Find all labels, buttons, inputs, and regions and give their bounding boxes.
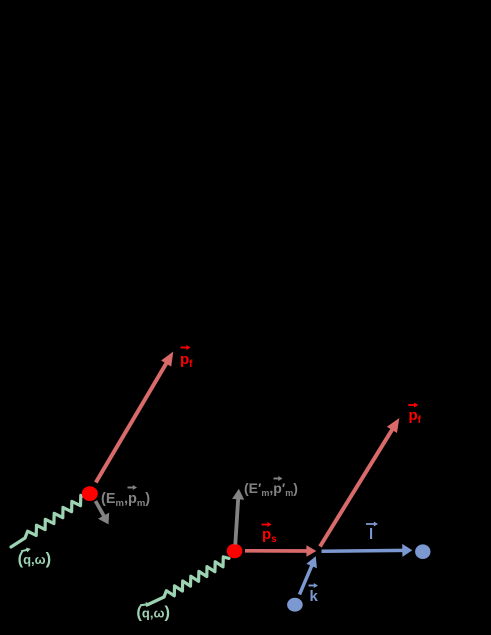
- label (E_m,p_m) left: [101, 485, 150, 509]
- arrow p_s horizontal (indianred): [245, 545, 316, 557]
- svg-text:k: k: [310, 588, 319, 605]
- blue dot right of l arrow: [415, 544, 430, 559]
- label l (blue): [366, 522, 378, 544]
- label p_f right: [408, 403, 421, 427]
- svg-text:(q,ω): (q,ω): [136, 604, 170, 622]
- svg-text:l: l: [369, 526, 373, 543]
- label k (blue): [309, 583, 319, 605]
- label (q,w) right: [136, 601, 170, 621]
- arrow p_f right (indianred): [320, 418, 399, 547]
- gray arrow up (E'_m,p'_m) right: [232, 489, 244, 545]
- label (E'_m,p'_m) right: [244, 476, 298, 498]
- label p_f left: [180, 345, 193, 370]
- label p_s: [262, 522, 278, 545]
- photon wavy line (q,w) right: [147, 557, 229, 605]
- photon wavy line (q,w) left: [11, 495, 87, 547]
- blue dot lower left (k source): [287, 598, 303, 612]
- svg-text:(q,ω): (q,ω): [18, 550, 52, 568]
- blue arrow l: [322, 544, 413, 557]
- label (q,w) left: [18, 546, 52, 567]
- nucleon dot right (red): [227, 544, 243, 559]
- arrow p_f left (indianred): [96, 352, 174, 483]
- gray recoil arrow left: [96, 501, 110, 524]
- nucleon dot left (red): [82, 486, 98, 501]
- blue arrow k: [300, 556, 317, 594]
